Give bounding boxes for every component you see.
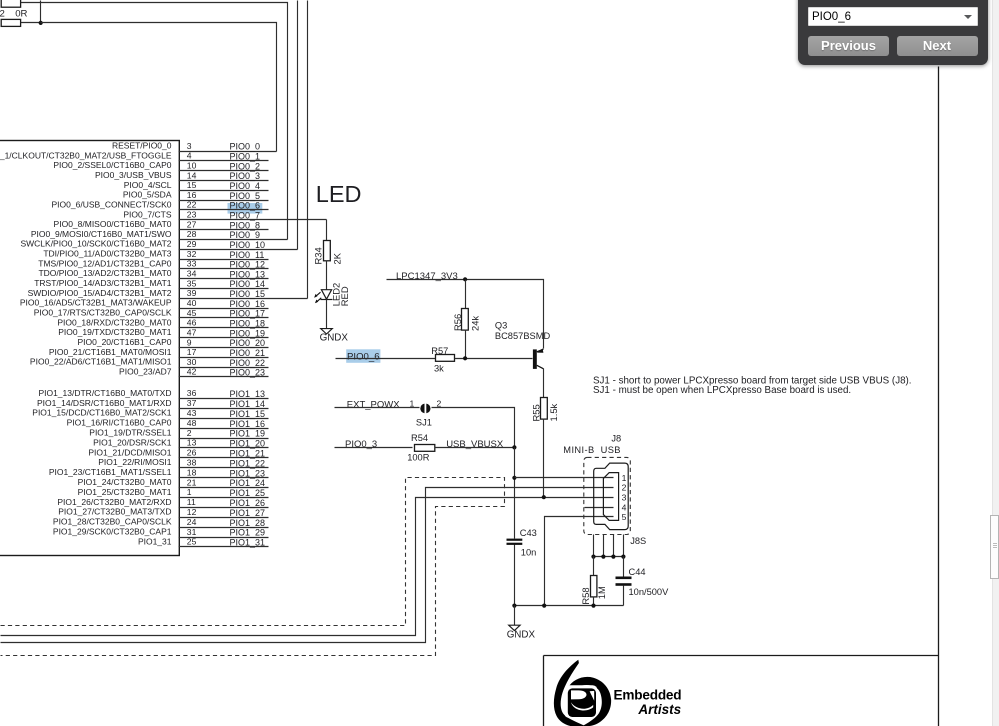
scrollbar thumb	[990, 515, 999, 580]
label R54	[411, 433, 428, 443]
value 1.5k	[548, 403, 559, 421]
capacitor C44	[616, 577, 632, 586]
title block box	[544, 656, 939, 726]
svg-text:2: 2	[0, 9, 5, 20]
wire: R34 bottom to LED2 anode	[326, 261, 328, 290]
label LED2	[331, 283, 342, 306]
connector J8 mini-B body outline	[594, 463, 629, 529]
net label PIO1_28	[230, 518, 266, 528]
svg-text:C44: C44	[629, 567, 646, 577]
svg-text:38: 38	[187, 458, 197, 468]
IC pin 47 wire / net PIO0_19	[179, 337, 269, 339]
svg-text:PIO1_19: PIO1_19	[230, 429, 266, 439]
svg-text:1: 1	[187, 487, 192, 497]
junction: ground rail / R58	[591, 604, 595, 608]
svg-text:PIO0_4: PIO0_4	[230, 181, 261, 191]
svg-text:Artists: Artists	[637, 702, 681, 717]
svg-text:PIO0_9/MOSI0/CT16B0_MAT1/SWO: PIO0_9/MOSI0/CT16B0_MAT1/SWO	[31, 229, 172, 239]
pin name TDO/PIO0_13/AD2/CT32B1_MAT0	[38, 268, 171, 278]
IC pin 23 wire / net PIO0_7	[179, 219, 327, 221]
svg-text:PIO0_10: PIO0_10	[230, 240, 266, 250]
svg-text:15: 15	[187, 180, 197, 190]
svg-text:PIO1_26: PIO1_26	[230, 498, 266, 508]
pin name PIO1_28/CT32B0_CAP0/SCLK	[53, 517, 172, 527]
pin number 22	[187, 200, 197, 210]
svg-text:R34: R34	[312, 247, 323, 264]
net label PIO0_3	[230, 171, 261, 181]
ground rail wire	[515, 605, 624, 607]
wire: shield bus to R58	[593, 557, 595, 576]
IC pin 25 wire / net PIO1_31	[179, 546, 269, 548]
svg-text:PIO1_28/CT32B0_CAP0/SCLK: PIO1_28/CT32B0_CAP0/SCLK	[53, 517, 172, 527]
net label PIO0_15	[230, 289, 266, 299]
svg-text:LED: LED	[316, 181, 362, 207]
resistor R55	[541, 398, 548, 420]
svg-text:TDO/PIO0_13/AD2/CT32B1_MAT0: TDO/PIO0_13/AD2/CT32B1_MAT0	[38, 268, 171, 278]
pin name PIO0_7/CTS	[123, 209, 172, 219]
value 2K	[331, 252, 342, 264]
capacitor C43	[507, 539, 523, 545]
pin name PIO0_21/CT16B1_MAT0/MOSI1	[49, 347, 172, 357]
svg-text:PIO0_13: PIO0_13	[230, 269, 266, 279]
svg-text:1.5k: 1.5k	[548, 403, 559, 421]
junction: ground rail / pin5	[542, 604, 546, 608]
pin name PIO0_23/AD7	[119, 366, 172, 376]
wire: shield bus to C44	[623, 557, 625, 577]
IC U1 (LPC1347) box	[0, 141, 179, 556]
junction: VBUS / USB pin1	[512, 476, 516, 480]
ground GNDX (USB)	[509, 625, 520, 630]
resistor R57	[436, 355, 455, 362]
svg-text:24: 24	[187, 517, 197, 527]
pin name PIO1_24/CT32B0_MAT0	[78, 477, 172, 487]
svg-text:40: 40	[187, 298, 197, 308]
wire: lower 0R resistor to junction	[21, 22, 41, 24]
pin name PIO1_14/DSR/CT16B0_MAT1/RXD	[37, 398, 171, 408]
ground GNDX (LED)	[321, 329, 333, 334]
label J8	[611, 433, 621, 443]
pin name PIO1_20/DSR/SCK1	[93, 437, 172, 447]
section heading LED	[316, 181, 362, 207]
wire: USB pin2 D- to off-page left	[1, 488, 614, 643]
svg-text:LPC1347_3V3: LPC1347_3V3	[396, 271, 458, 282]
net label PIO0_17	[230, 309, 266, 319]
wire: LED2 cathode to GNDX	[326, 300, 328, 329]
svg-text:R58: R58	[580, 587, 591, 604]
wire: Q3 collector to R55	[543, 369, 545, 398]
pin name SWDIO/PIO0_15/AD4/CT32B1_MAT2	[28, 288, 172, 298]
svg-text:PIO0_7/CTS: PIO0_7/CTS	[123, 209, 172, 219]
pin number 12	[187, 507, 197, 517]
net label PIO1_13	[230, 389, 266, 399]
pin number 35	[187, 278, 197, 288]
pin name PIO0_17/RTS/CT32B0_CAP0/SCLK	[34, 308, 172, 318]
pin number 1	[187, 487, 192, 497]
svg-text:PIO1_23/CT16B1_MAT1/SSEL1: PIO1_23/CT16B1_MAT1/SSEL1	[49, 467, 172, 477]
svg-text:PIO1_25/CT32B0_MAT1: PIO1_25/CT32B0_MAT1	[78, 487, 172, 497]
net label PIO0_4	[230, 181, 261, 191]
pin name PIO0_5/SDA	[123, 190, 172, 200]
svg-text:18: 18	[187, 467, 197, 477]
junction: D+ / R55	[542, 495, 546, 499]
junction node at 0R output	[39, 21, 43, 25]
label R58	[580, 587, 591, 604]
svg-text:GNDX: GNDX	[507, 630, 536, 641]
svg-text:SWDIO/PIO0_15/AD4/CT32B1_MAT2: SWDIO/PIO0_15/AD4/CT32B1_MAT2	[28, 288, 172, 298]
svg-text:PIO0_23: PIO0_23	[230, 368, 266, 378]
pin name PIO0_20/CT16B1_CAP0	[77, 337, 171, 347]
svg-text:Q3: Q3	[495, 321, 507, 331]
resistor body (top, cut off at edge)	[1, 0, 20, 7]
IC pin 18 wire / net PIO1_23	[179, 477, 269, 479]
net label PIO0_3	[345, 439, 377, 450]
svg-text:PIO0_7: PIO0_7	[230, 211, 261, 221]
net label PIO1_26	[230, 498, 266, 508]
net label PIO1_24	[230, 478, 266, 488]
svg-text:PIO0_20: PIO0_20	[230, 338, 266, 348]
svg-text:RED: RED	[339, 286, 350, 306]
svg-text:26: 26	[187, 448, 197, 458]
IC pin 16 wire / net PIO0_5	[179, 200, 269, 202]
wire: USB pin1 VBUS to connector	[515, 477, 614, 479]
pin number 3	[187, 141, 192, 151]
resistor 0R (R2x)	[1, 19, 20, 26]
value 1M	[596, 586, 607, 599]
net label PIO0_10	[230, 240, 266, 250]
pin number 21	[187, 477, 197, 487]
svg-text:PIO1_26/CT32B0_MAT2/RXD: PIO1_26/CT32B0_MAT2/RXD	[57, 497, 171, 507]
pin name PIO0_3/USB_VBUS	[95, 170, 172, 180]
svg-text:1: 1	[410, 399, 415, 409]
pin name TDI/PIO0_11/AD0/CT32B0_MAT3	[43, 249, 171, 259]
svg-text:PIO0_0: PIO0_0	[230, 142, 261, 152]
LED emission arrows	[314, 292, 321, 303]
net label PIO1_31	[230, 538, 266, 548]
pin number 11	[187, 497, 196, 507]
resistor R58	[591, 576, 597, 597]
svg-text:1M: 1M	[596, 586, 607, 599]
net label PIO1_16	[230, 419, 266, 429]
net label LPC1347_3V3	[396, 271, 458, 282]
IC pin 40 wire / net PIO0_16	[179, 308, 269, 310]
svg-text:RESET/PIO0_0: RESET/PIO0_0	[112, 141, 172, 151]
wire: R55 bottom to USB D+ net	[543, 419, 545, 498]
svg-text:46: 46	[187, 318, 197, 328]
svg-text:11: 11	[187, 497, 196, 507]
svg-text:PIO0_16/AD5/CT32B1_MAT3/WAKEUP: PIO0_16/AD5/CT32B1_MAT3/WAKEUP	[20, 298, 172, 308]
pin name PIO0_16/AD5/CT32B1_MAT3/WAKEUP	[20, 298, 172, 308]
pin number 42	[187, 367, 197, 377]
svg-text:9: 9	[187, 337, 192, 347]
svg-text:R56: R56	[452, 314, 463, 331]
svg-text:48: 48	[187, 418, 197, 428]
svg-text:0R: 0R	[15, 9, 27, 20]
svg-text:12: 12	[187, 507, 197, 517]
svg-text:4: 4	[622, 502, 627, 512]
pin number 26	[187, 448, 197, 458]
svg-text:PIO0_1: PIO0_1	[230, 152, 261, 162]
svg-text:PIO0_20/CT16B1_CAP0: PIO0_20/CT16B1_CAP0	[77, 337, 171, 347]
svg-text:PIO1_13: PIO1_13	[230, 389, 266, 399]
svg-text:45: 45	[187, 308, 197, 318]
wire: SJ1 pin 2 to USB_VBUSX	[432, 408, 515, 448]
pin number 33	[187, 259, 197, 269]
svg-text:3k: 3k	[434, 363, 444, 373]
value BC857BSMD	[495, 331, 551, 341]
IC pin 46 wire / net PIO0_18	[179, 327, 269, 329]
pin name PIO0_2/SSEL0/CT16B0_CAP0	[53, 160, 171, 170]
svg-text:30: 30	[187, 357, 197, 367]
svg-text:3: 3	[622, 492, 627, 502]
search combo box PIO0_6	[808, 7, 978, 26]
label C43	[520, 528, 537, 538]
IC pin 22 wire / net PIO0_6	[179, 209, 269, 211]
svg-text:PIO0_3: PIO0_3	[230, 171, 261, 181]
pin name PIO0_22/AD6/CT16B1_MAT1/MISO1	[30, 357, 172, 367]
svg-text:43: 43	[187, 408, 197, 418]
pin name PIO1_26/CT32B0_MAT2/RXD	[57, 497, 171, 507]
pin name PIO0_4/SCL	[124, 180, 172, 190]
svg-text:GNDX: GNDX	[320, 332, 349, 343]
transistor Q3 BC857BSMD (PNP)	[533, 349, 544, 369]
pin number 38	[187, 458, 197, 468]
net label PIO1_20	[230, 439, 266, 449]
svg-text:PIO0_9: PIO0_9	[230, 230, 261, 240]
junction nodes on shield bus	[591, 555, 625, 559]
LED LED2 (triangle + cathode bar)	[321, 290, 333, 300]
IC pin 32 wire / net PIO0_11	[179, 259, 269, 261]
IC pin 10 wire / net PIO0_2	[179, 170, 269, 172]
svg-text:SJ1 - must be open when LPCXpr: SJ1 - must be open when LPCXpresso Base …	[593, 385, 851, 396]
resistor R34	[324, 241, 331, 261]
net label PIO0_11	[230, 250, 265, 260]
wire: junction to V1 down to pin PIO0_0	[41, 23, 277, 152]
label R34	[312, 247, 323, 264]
net label PIO0_2	[230, 161, 261, 171]
scrollbar track	[992, 0, 999, 726]
svg-text:PIO0_19/TXD/CT32B0_MAT1: PIO0_19/TXD/CT32B0_MAT1	[58, 327, 171, 337]
pin number 47	[187, 327, 197, 337]
Embedded Artists logo swirl	[554, 660, 611, 726]
svg-text:4: 4	[187, 151, 192, 161]
svg-text:34: 34	[187, 269, 197, 279]
svg-text:BC857BSMD: BC857BSMD	[495, 331, 551, 341]
net label PIO0_8	[230, 220, 261, 230]
svg-text:2: 2	[622, 482, 627, 492]
svg-text:5: 5	[622, 512, 627, 522]
pin name PIO1_23/CT16B1_MAT1/SSEL1	[49, 467, 172, 477]
logo text Artists	[637, 702, 681, 717]
net label USB_VBUSX	[446, 439, 504, 450]
shield bus wire	[594, 556, 624, 558]
wire: R57 to Q3 base	[455, 358, 533, 360]
svg-text:100R: 100R	[407, 453, 430, 463]
pin number 32	[187, 249, 197, 259]
J8 pin number 5	[622, 512, 627, 522]
pin number 40	[187, 298, 197, 308]
svg-text:PIO1_28: PIO1_28	[230, 518, 266, 528]
pin number 39	[187, 288, 197, 298]
svg-text:PIO1_22/RI/MOSI1: PIO1_22/RI/MOSI1	[98, 457, 171, 467]
IC pin 9 wire / net PIO0_20	[179, 347, 269, 349]
IC pin 31 wire / net PIO1_29	[179, 537, 269, 539]
svg-text:PIO0_18/RXD/CT32B0_MAT0: PIO0_18/RXD/CT32B0_MAT0	[57, 317, 171, 327]
pin name PIO0_6/USB_CONNECT/SCK0	[52, 199, 172, 209]
junction: ground rail / GNDX tap	[512, 604, 516, 608]
IC pin 27 wire / net PIO0_8	[179, 229, 269, 231]
svg-text:23: 23	[187, 210, 197, 220]
svg-text:R55: R55	[531, 404, 542, 421]
dashed shield outline around USB data pair	[1, 478, 505, 656]
net label PIO0_20	[230, 338, 266, 348]
IC pin 34 wire / net PIO0_13	[179, 278, 269, 280]
pin number 16	[187, 190, 197, 200]
svg-text:PIO1_24: PIO1_24	[230, 478, 266, 488]
pin number 25	[187, 537, 197, 547]
svg-text:22: 22	[187, 200, 197, 210]
svg-text:Embedded: Embedded	[614, 688, 682, 703]
svg-text:PIO0_8: PIO0_8	[230, 220, 261, 230]
svg-text:10: 10	[187, 160, 197, 170]
IC pin 37 wire / net PIO1_14	[179, 408, 269, 410]
SJ1 pin number 1	[410, 399, 415, 409]
label J8S	[630, 536, 646, 546]
wire: junction up off-page	[40, 1, 42, 23]
pin name PIO0_8/MISO0/CT16B0_MAT0	[54, 219, 172, 229]
IC pin 15 wire / net PIO0_4	[179, 190, 269, 192]
svg-text:35: 35	[187, 278, 197, 288]
pin name PIO0_18/RXD/CT32B0_MAT0	[57, 317, 171, 327]
svg-text:PIO0_22/AD6/CT16B1_MAT1/MISO1: PIO0_22/AD6/CT16B1_MAT1/MISO1	[30, 357, 172, 367]
pin name SWCLK/PIO0_10/SCK0/CT16B0_MAT2	[20, 239, 171, 249]
IC pin 4 wire / net PIO0_1	[179, 160, 269, 162]
svg-text:24k: 24k	[470, 316, 481, 331]
button Previous	[808, 36, 889, 56]
svg-text:C43: C43	[520, 528, 537, 538]
svg-text:SJ1: SJ1	[416, 417, 432, 427]
net label PIO0_18	[230, 319, 266, 329]
svg-text:2: 2	[187, 428, 192, 438]
IC pin 17 wire / net PIO0_21	[179, 357, 269, 359]
IC pin 42 wire / net PIO0_23	[179, 376, 269, 378]
wire: USB pin5 GND to ground rail	[545, 517, 614, 606]
svg-text:37: 37	[187, 398, 197, 408]
pin number 2	[187, 428, 192, 438]
net label PIO0_12	[230, 260, 266, 270]
svg-text:PIO0_6: PIO0_6	[347, 352, 380, 363]
svg-text:16: 16	[187, 190, 197, 200]
pin number 23	[187, 210, 197, 220]
wire V3: PIO0_10 up off-page	[297, 1, 299, 250]
IC pin 3 wire / net PIO0_0	[179, 151, 277, 153]
label R55	[531, 404, 542, 421]
pin name PIO1_25/CT32B0_MAT1	[78, 487, 172, 497]
svg-text:EXT_POWX: EXT_POWX	[347, 399, 400, 410]
svg-text:25: 25	[187, 537, 197, 547]
svg-text:PIO0_2: PIO0_2	[230, 161, 261, 171]
label Q3	[495, 321, 507, 331]
svg-text:PIO0_6/USB_CONNECT/SCK0: PIO0_6/USB_CONNECT/SCK0	[52, 199, 172, 209]
wire: VBUS vertical to C43 and ground rail	[514, 448, 516, 606]
net label PIO0_19	[230, 328, 266, 338]
wire: top resistor to vertical V2 (net to PIO0_9)	[21, 3, 288, 240]
pin number 18	[187, 467, 197, 477]
svg-text:PIO1_31: PIO1_31	[230, 538, 266, 548]
wire: R54 to VBUS junction	[435, 447, 515, 449]
pin number 10	[187, 160, 197, 170]
svg-text:PIO1_23: PIO1_23	[230, 468, 266, 478]
svg-text:TMS/PIO0_12/AD1/CT32B1_CAP0: TMS/PIO0_12/AD1/CT32B1_CAP0	[38, 258, 172, 268]
pin number 45	[187, 308, 197, 318]
pin number 14	[187, 170, 197, 180]
net label PIO1_21	[230, 449, 266, 459]
net label PIO1_14	[230, 399, 266, 409]
label C44	[629, 567, 646, 577]
pin name PIO1_15/DCD/CT16B0_MAT2/SCK1	[32, 408, 171, 418]
svg-text:PIO0_8/MISO0/CT16B0_MAT0: PIO0_8/MISO0/CT16B0_MAT0	[54, 219, 172, 229]
pin name PIO1_16/RI/CT16B0_CAP0	[67, 418, 172, 428]
svg-text:PIO1_22: PIO1_22	[230, 458, 266, 468]
wire: R56 bottom to base net	[465, 330, 467, 359]
svg-text:PIO0_21: PIO0_21	[230, 348, 266, 358]
IC pin 45 wire / net PIO0_17	[179, 317, 269, 319]
junction: base net / R56	[463, 356, 467, 360]
wire: rail to GNDX symbol	[514, 606, 516, 626]
label GNDX	[320, 332, 349, 343]
svg-text:PIO1_20/DSR/SCK1: PIO1_20/DSR/SCK1	[93, 437, 172, 447]
net label PIO0_23	[230, 368, 266, 378]
IC pin 2 wire / net PIO1_19	[179, 438, 269, 440]
label GNDX	[507, 630, 536, 641]
wire: EXT_POWX to SJ1 pin 1	[335, 407, 420, 409]
pin number 36	[187, 388, 197, 398]
net label PIO0_6 (highlighted)	[347, 352, 380, 363]
search panel	[798, 0, 988, 65]
svg-text:PIO1_15: PIO1_15	[230, 409, 266, 419]
svg-text:39: 39	[187, 288, 197, 298]
solder jumper SJ1	[420, 404, 430, 414]
pin name PIO1_22/RI/MOSI1	[98, 457, 171, 467]
value 10n/500V	[629, 587, 670, 597]
note line 1	[593, 375, 912, 386]
label R57	[431, 346, 448, 356]
J8 pin number 1	[622, 473, 627, 483]
svg-text:33: 33	[187, 259, 197, 269]
svg-text:PIO1_19/DTR/SSEL1: PIO1_19/DTR/SSEL1	[89, 428, 171, 438]
svg-text:PIO0_2/SSEL0/CT16B0_CAP0: PIO0_2/SSEL0/CT16B0_CAP0	[53, 160, 171, 170]
pin number 27	[187, 219, 197, 229]
svg-text:28: 28	[187, 229, 197, 239]
svg-text:PIO0_17: PIO0_17	[230, 309, 266, 319]
svg-text:PIO1_15/DCD/CT16B0_MAT2/SCK1: PIO1_15/DCD/CT16B0_MAT2/SCK1	[32, 408, 171, 418]
wire: USB pin3 D+ to off-page left	[1, 498, 614, 636]
svg-text:PIO0_3: PIO0_3	[345, 439, 377, 450]
value label 2 0R	[0, 9, 28, 20]
net label PIO0_5	[230, 191, 261, 201]
net label PIO0_0	[230, 142, 261, 152]
net label PIO1_23	[230, 468, 266, 478]
svg-text:31: 31	[187, 527, 197, 537]
net label PIO0_6	[230, 201, 261, 211]
pin number 28	[187, 229, 197, 239]
pin name PIO0_1/CLKOUT/CT32B0_MAT2/USB_FTOGGLE	[0, 150, 172, 160]
svg-text:29: 29	[187, 239, 197, 249]
svg-text:PIO1_21/DCD/MISO1: PIO1_21/DCD/MISO1	[88, 447, 171, 457]
svg-text:R57: R57	[431, 346, 448, 356]
search highlight on net label PIO0_6 at R57	[346, 349, 380, 363]
wire: PIO0_3 stub to R54	[335, 447, 413, 449]
svg-text:USB_VBUSX: USB_VBUSX	[446, 439, 504, 450]
